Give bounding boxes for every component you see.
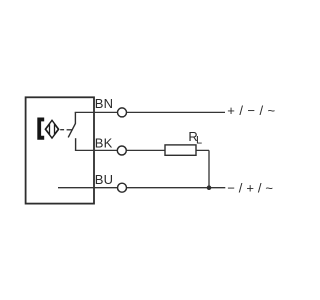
svg-text:+ / − / ~: + / − / ~ <box>227 103 275 118</box>
svg-text:BU: BU <box>95 172 113 187</box>
svg-text:− / + / ~: − / + / ~ <box>227 181 273 196</box>
svg-text:L: L <box>196 134 202 146</box>
svg-text:BK: BK <box>95 136 113 151</box>
svg-text:BN: BN <box>95 96 113 111</box>
